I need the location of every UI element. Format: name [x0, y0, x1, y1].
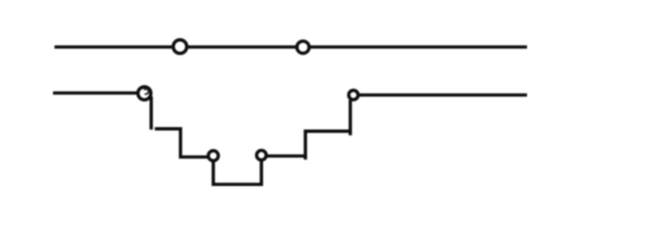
node T1	[173, 40, 187, 54]
node T4	[208, 151, 218, 161]
node T6	[349, 90, 358, 99]
node T3	[138, 87, 151, 100]
wire U bottom	[213, 161, 261, 185]
wire bottom-right segment	[360, 93, 528, 96]
wire bottom-left segment	[53, 91, 139, 94]
wire overshoot tick at step-up corner	[304, 156, 307, 160]
wire step down	[155, 129, 209, 157]
wire top rail	[55, 45, 528, 48]
wire step up	[267, 131, 351, 156]
node T2	[297, 41, 309, 53]
wire vertical drop from T3	[150, 97, 153, 130]
wire vertical drop from T6	[349, 100, 352, 135]
node T5	[257, 150, 267, 160]
